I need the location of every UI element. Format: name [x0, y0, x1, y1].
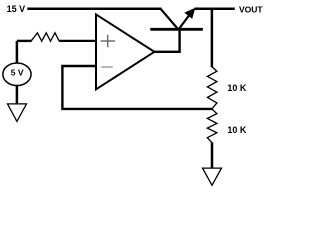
svg-text:10 K: 10 K — [227, 83, 247, 93]
svg-text:5 V: 5 V — [11, 68, 24, 78]
svg-text:10 K: 10 K — [227, 125, 247, 135]
svg-text:15 V: 15 V — [7, 4, 26, 14]
svg-text:VOUT: VOUT — [239, 4, 263, 14]
